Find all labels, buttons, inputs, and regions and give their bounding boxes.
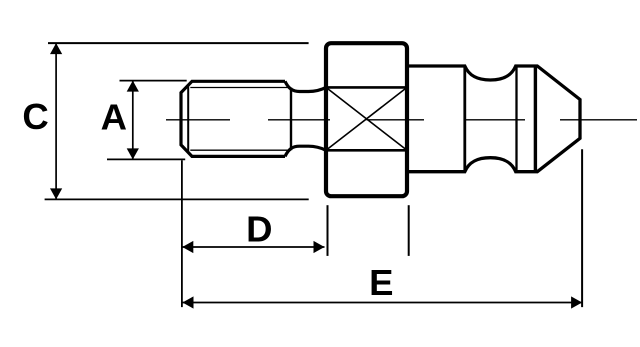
C bottom extension line: [45, 198, 309, 200]
svg-text:E: E: [369, 262, 393, 303]
A arrow down: [127, 148, 139, 159]
D arrow left: [182, 241, 193, 253]
E arrow right: [571, 296, 582, 308]
svg-text:C: C: [22, 96, 48, 137]
right extension vertical (tip, for E): [581, 149, 583, 307]
neck end vertical: [463, 66, 466, 172]
thread runout fillet top (neck between thread and flange): [285, 81, 326, 91]
flange left short extension vertical: [327, 205, 329, 256]
thread end vertical: [290, 88, 292, 151]
ball band vertical 2 (cone base): [534, 66, 537, 172]
svg-text:A: A: [101, 96, 127, 137]
C dimension line: [55, 43, 57, 199]
E arrow left: [183, 296, 194, 308]
thread minor diameter line bottom: [190, 149, 291, 151]
flange inner horizontal top: [326, 86, 407, 89]
head outline: neck, groove, band, cone, tip: [409, 66, 580, 172]
thread chamfer edge vertical: [187, 85, 189, 152]
thread outer contour with chamfered left end: [181, 81, 285, 156]
ball band vertical 1: [515, 66, 517, 172]
A top extension line: [120, 80, 187, 82]
D dimension line: [182, 246, 324, 248]
D arrow right: [314, 241, 325, 253]
flange inner horizontal bottom: [326, 149, 407, 152]
left extension vertical (thread start, for D and E): [181, 160, 183, 307]
C arrow down: [50, 188, 62, 199]
A bottom extension line: [107, 158, 185, 160]
svg-text:D: D: [246, 208, 272, 249]
C top extension line: [48, 42, 309, 44]
A dimension line: [132, 81, 134, 160]
flange right short extension vertical: [408, 205, 410, 256]
thread minor diameter line top: [190, 87, 291, 89]
E dimension line: [183, 302, 583, 304]
flange X diagonal 2: [326, 87, 407, 150]
flange X diagonal 1: [326, 87, 407, 150]
thread runout fillet bottom: [285, 146, 326, 156]
C arrow up: [50, 43, 62, 54]
A arrow up: [127, 81, 139, 92]
flange outer rectangle: [326, 43, 407, 196]
centerline: [166, 119, 637, 121]
